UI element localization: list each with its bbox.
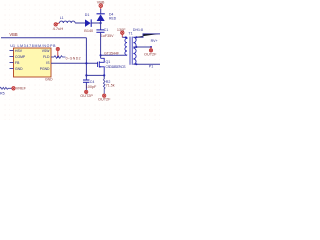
svg-text:OUT2P: OUT2P: [80, 94, 93, 98]
IC pin names right: [40, 49, 51, 71]
secondary bottom wire: [133, 63, 160, 65]
svg-text:VSW: VSW: [42, 49, 51, 53]
power port above transformer: [121, 31, 124, 37]
capacitor C4: [83, 79, 89, 81]
svg-text:C4: C4: [90, 80, 95, 84]
svg-text:VBB: VBB: [97, 1, 105, 5]
wire to R2: [86, 74, 104, 76]
junction gate node / source row: [85, 74, 87, 76]
wire D2 to node: [100, 21, 102, 23]
vertical wire from bus down: [85, 38, 87, 80]
bottom left resistor R5: [0, 87, 12, 89]
svg-text:GND: GND: [45, 77, 53, 81]
svg-text:FLD: FLD: [43, 55, 50, 59]
svg-text:DH1:8: DH1:8: [133, 28, 143, 32]
background grid: [0, 0, 160, 120]
svg-text:VREF: VREF: [16, 87, 27, 91]
svg-text:B140: B140: [84, 29, 93, 33]
transformer secondary winding: [133, 37, 136, 64]
svg-text:COMP: COMP: [15, 55, 26, 59]
wire node to C1: [100, 23, 102, 30]
svg-text:PGND: PGND: [40, 67, 50, 71]
gate wire from IC to Q1: [51, 62, 98, 64]
svg-text:C1: C1: [104, 28, 109, 32]
svg-text:R5: R5: [0, 91, 5, 95]
wire C4 to ground port: [85, 82, 87, 90]
svg-text:Q1: Q1: [106, 60, 111, 64]
svg-text:GT3544F: GT3544F: [104, 52, 120, 56]
wire coil to D1: [75, 22, 85, 24]
diode D1: [85, 19, 91, 27]
mosfet Q1: [98, 58, 105, 75]
resistor R3 zigzag: [54, 56, 66, 59]
IC left pin stubs: [10, 51, 14, 69]
capacitor C1: [96, 29, 104, 31]
svg-text:L1: L1: [60, 16, 64, 20]
ground port under R2: [103, 94, 106, 97]
svg-text:4.7uH: 4.7uH: [53, 26, 64, 31]
transformer primary winding: [125, 37, 127, 55]
svg-text:GND: GND: [15, 67, 23, 71]
ground port under C4: [85, 90, 88, 93]
junction drain / primary: [100, 54, 102, 56]
svg-text:OUT2F: OUT2F: [98, 98, 111, 102]
svg-text:LM3478MM/NOPB: LM3478MM/NOPB: [18, 44, 57, 48]
svg-text:FB: FB: [15, 61, 20, 65]
node junction D1/D2/C1: [100, 22, 102, 24]
diode D2 (up): [97, 14, 105, 21]
wire port to primary top: [122, 36, 127, 38]
main bus wire VIN: [1, 37, 86, 39]
transformer core: [129, 37, 131, 65]
wire drain to mosfet: [100, 55, 102, 58]
svg-text:71.5k: 71.5k: [106, 84, 115, 88]
IC pin names left: [15, 49, 26, 71]
secondary center tap: [133, 46, 151, 48]
svg-text:1uF35V: 1uF35V: [101, 34, 114, 38]
port on pin row: [56, 47, 59, 56]
svg-text:RED: RED: [109, 16, 117, 20]
wire D1 to node: [91, 22, 100, 24]
svg-text:VBB: VBB: [9, 32, 17, 37]
svg-text:U1: U1: [10, 44, 15, 48]
secondary top wire: [133, 34, 160, 37]
svg-text:0-GND2: 0-GND2: [66, 56, 81, 60]
IC U1 body: [14, 48, 52, 77]
tap ground port: [149, 47, 152, 52]
resistor R2 vertical: [103, 75, 105, 79]
port VREF: [12, 87, 15, 90]
wire node to transformer primary bottom: [101, 54, 127, 56]
wire port to D2: [100, 9, 102, 13]
svg-text:D1: D1: [85, 13, 90, 17]
svg-text:130F: 130F: [117, 28, 126, 32]
power port VBAT (left, feeds inductor): [54, 23, 60, 26]
svg-text:P1: P1: [149, 65, 153, 69]
svg-text:100pF: 100pF: [86, 85, 97, 89]
inductor L1 coil: [60, 21, 76, 23]
power port VBB (top): [99, 4, 103, 10]
wire C1 to drain node: [100, 32, 102, 55]
junction on vertical: [85, 62, 87, 64]
svg-text:CSD18537KCS: CSD18537KCS: [106, 65, 127, 69]
svg-text:HSV: HSV: [15, 49, 23, 53]
svg-text:OUT2F: OUT2F: [144, 52, 157, 56]
right pin row with resistor and VCC port: [51, 56, 54, 58]
svg-text:RV+: RV+: [151, 39, 158, 43]
